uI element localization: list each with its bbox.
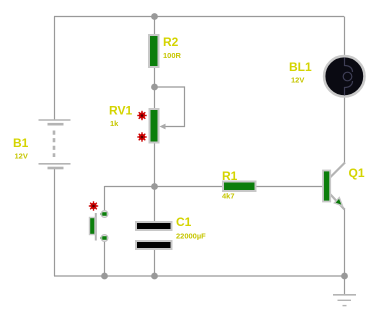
svg-text:1k: 1k bbox=[110, 119, 119, 128]
svg-text:R1: R1 bbox=[222, 169, 238, 183]
svg-text:4k7: 4k7 bbox=[222, 192, 235, 201]
svg-text:22000µF: 22000µF bbox=[176, 232, 206, 241]
wire lamp to collector bbox=[344, 95, 346, 164]
svg-text:R2: R2 bbox=[163, 35, 179, 49]
wire lamp top lead bbox=[344, 17, 346, 59]
wire base rail (R1 row) bbox=[105, 186, 324, 188]
node junction C1-bottom rail bbox=[151, 273, 158, 280]
svg-text:12V: 12V bbox=[291, 76, 304, 85]
node junction top (R2 tap) bbox=[151, 13, 158, 20]
push switch SW1 bbox=[90, 213, 96, 241]
svg-text:BL1: BL1 bbox=[289, 60, 312, 74]
wire bottom rail bbox=[54, 275, 344, 277]
wire emitter to ground bbox=[344, 208, 346, 295]
node junction emitter-bottom rail bbox=[341, 273, 348, 280]
wire C1 bottom lead bbox=[154, 249, 156, 276]
wire RV1 wiper loop bbox=[155, 87, 185, 127]
node junction switch-bottom rail bbox=[101, 273, 108, 280]
svg-text:12V: 12V bbox=[15, 152, 28, 161]
svg-text:100R: 100R bbox=[163, 51, 182, 60]
lamp BL1 bbox=[324, 56, 364, 96]
potentiometer RV1 bbox=[150, 109, 159, 143]
RV1 adjust knob down bbox=[137, 132, 146, 141]
RV1 adjust knob up bbox=[137, 111, 146, 120]
switch press knob bbox=[89, 201, 98, 210]
wire left rail upper (battery top lead) bbox=[54, 17, 56, 121]
svg-text:Q1: Q1 bbox=[349, 166, 365, 180]
switch contact bottom bbox=[100, 235, 108, 242]
wire switch top lead bbox=[104, 186, 106, 212]
wire left rail lower (battery bottom lead) bbox=[54, 168, 56, 276]
node junction base rail bbox=[151, 183, 158, 190]
switch contact top bbox=[100, 211, 108, 218]
capacitor C1 bbox=[136, 222, 172, 249]
transistor Q1 bbox=[323, 163, 345, 210]
svg-text:B1: B1 bbox=[13, 136, 29, 150]
wire middle column (R2 / RV1 / C1 branch) bbox=[154, 17, 156, 223]
wire switch bottom lead bbox=[104, 240, 106, 276]
resistor R2 bbox=[149, 35, 159, 67]
ground bbox=[333, 295, 356, 306]
wiper arrowhead bbox=[160, 124, 166, 130]
battery B1 bbox=[39, 120, 71, 168]
wire top rail bbox=[54, 16, 344, 18]
resistor R1 bbox=[223, 182, 256, 192]
svg-text:RV1: RV1 bbox=[109, 104, 132, 118]
node junction R2-RV1 bbox=[151, 84, 158, 91]
svg-text:C1: C1 bbox=[176, 215, 192, 229]
